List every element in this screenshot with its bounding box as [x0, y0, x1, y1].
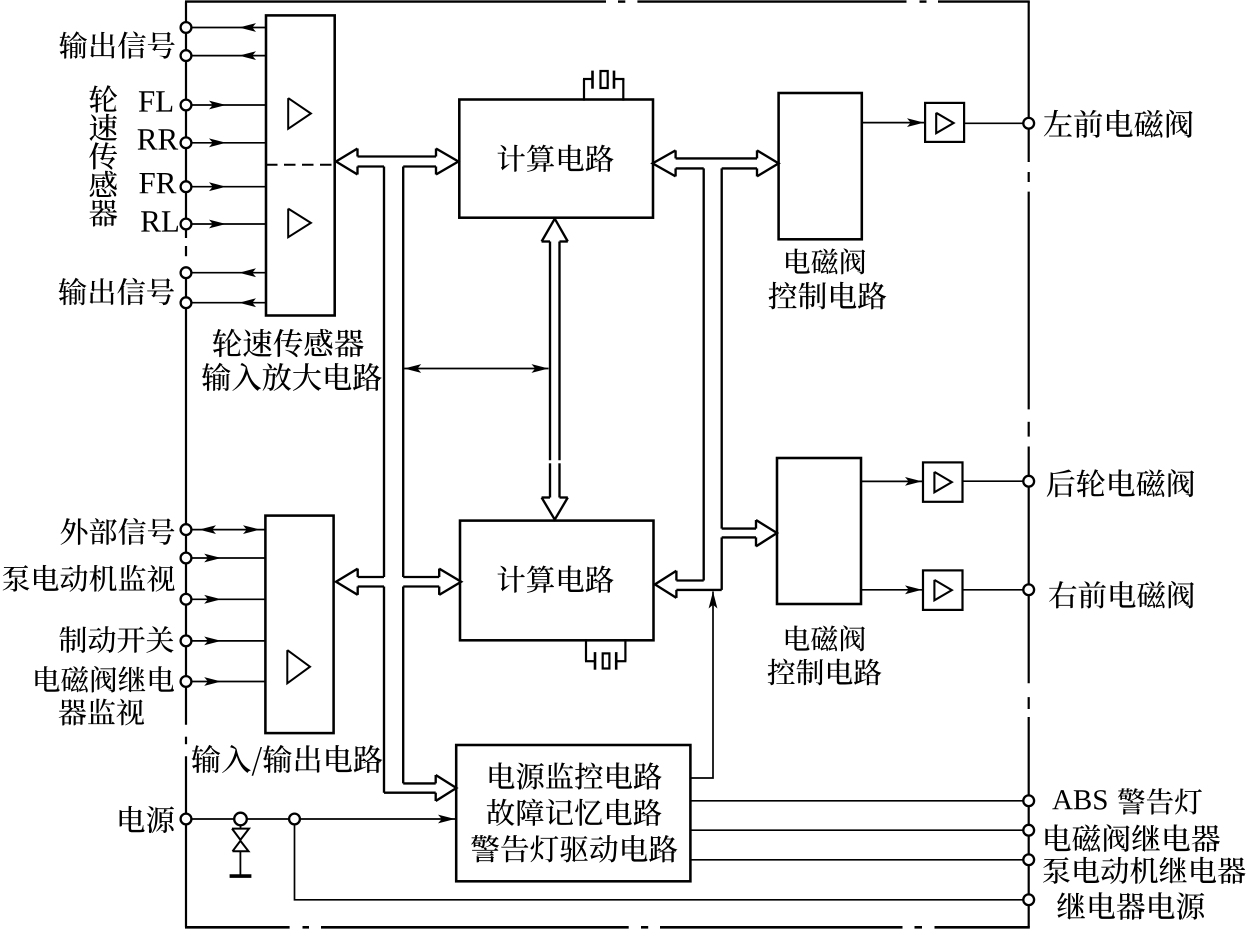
- node: ECU boundary, bottom edge: [185, 926, 1030, 929]
- label: RR: [138, 129, 158, 149]
- block: input/output circuit (输入/输出电路): [265, 516, 333, 734]
- block: computation circuit U1 (计算电路 upper): [459, 100, 653, 218]
- diode D1 (surge suppressor to ground): [230, 825, 252, 876]
- label: computation circuit U1: [498, 145, 525, 172]
- label: computation circuit U2: [498, 566, 525, 593]
- label: external signal: [61, 518, 88, 545]
- label: FL: [139, 91, 154, 111]
- label: brake switch: [59, 626, 86, 653]
- label: power: [120, 806, 145, 832]
- label: solenoid relay terminal: [1045, 824, 1070, 851]
- bus arrow: left bus into power monitor block: [384, 775, 456, 801]
- label: relay power terminal: [1057, 892, 1085, 919]
- junction node: relay power tap: [289, 814, 300, 825]
- label: front-right solenoid valve: [1049, 581, 1076, 608]
- label: FR: [139, 173, 154, 193]
- wire: battery power feed into monitor block: [186, 815, 455, 824]
- block: wheel-speed sensor input amplifier (轮速传感器输入放大电路): [266, 15, 335, 315]
- node: ECU boundary, left edge with terminal rail: [185, 2, 187, 928]
- wire: pump motor relay output: [690, 859, 1023, 861]
- block: solenoid control circuit U4 (电磁阀控制电路 lower): [777, 458, 861, 604]
- driver amp Q1 triangle: [936, 113, 953, 133]
- amplifier symbol A2: [288, 209, 311, 238]
- label: solenoid control U4: [768, 625, 882, 685]
- wire: U3 to driver Q1 and front-left solenoid terminal: [863, 118, 1023, 127]
- arrowheads on sensor leads: [209, 23, 256, 307]
- bus arrow: vertical between U1 and U2 (bidirectional): [542, 219, 568, 520]
- terminal circles, left rail: [181, 22, 192, 824]
- driver amp Q3 triangle: [934, 580, 951, 600]
- label: ABS warning lamp: [1052, 788, 1202, 814]
- driver amp Q1 box: [925, 103, 964, 142]
- bus arrow: right bus into U2 right edge: [655, 571, 722, 598]
- block: computation circuit U2 (计算电路 lower): [460, 521, 654, 641]
- wire: warning lamp output: [690, 800, 1023, 802]
- bus arrow: amplifier to U1 (bidirectional hollow arrow): [336, 149, 458, 175]
- wire: I/O circuit input leads: [186, 530, 265, 682]
- node: ECU boundary, right edge with terminal rail: [1028, 2, 1030, 928]
- terminal circles, right rail: [1023, 118, 1034, 905]
- driver amp Q2 triangle: [934, 472, 951, 492]
- label: input/output circuit: [191, 745, 220, 773]
- label: pump motor monitor: [3, 565, 30, 592]
- label: pump motor relay terminal: [1043, 857, 1070, 884]
- wire: U4 to driver Q2 and rear solenoid terminal: [861, 477, 1023, 486]
- wire: serial link between buses (thin double arrow): [404, 364, 548, 373]
- label: output signal (bottom): [58, 278, 86, 305]
- crystal oscillator X2 (on U2 bottom): [585, 639, 626, 670]
- bus arrow: right bus into solenoid control U4: [722, 520, 777, 546]
- amplifier symbol A1: [288, 98, 311, 129]
- label: rear solenoid valve: [1047, 469, 1075, 497]
- label: power monitor lines: [471, 762, 677, 862]
- wire: solenoid relay output: [690, 829, 1023, 831]
- bus: right vertical hollow bus: [704, 168, 722, 590]
- amplifier symbol A3: [287, 650, 310, 683]
- label: solenoid relay monitor line2: [59, 699, 87, 725]
- block: power monitor / fault memory / warning lamp driver: [456, 745, 690, 881]
- label: front-left solenoid valve: [1044, 110, 1072, 137]
- wire: U4 to driver Q3 and front-right solenoid terminal: [861, 585, 1023, 594]
- junction node: diode tap: [234, 813, 247, 826]
- crystal oscillator X1 (on U1 top): [583, 71, 624, 101]
- label: solenoid control U3: [769, 248, 887, 309]
- node: ECU enclosure boundary (chain line), top edge: [185, 0, 1030, 2]
- driver amp Q3 box: [923, 570, 963, 610]
- label: output signal (top): [59, 31, 87, 58]
- label: wheel speed sensor (vertical): [89, 85, 117, 112]
- bus: left vertical hollow bus to power monitor: [384, 167, 403, 793]
- block: solenoid control circuit U3 (电磁阀控制电路 upper): [779, 93, 862, 239]
- wire: relay power line to terminal: [295, 824, 1024, 900]
- bus arrow: I/O circuit to U2 (bidirectional, crossing left bus): [336, 569, 461, 595]
- wire: monitor feedback to U2 (thin arrow up): [690, 592, 717, 779]
- label: solenoid relay monitor line1: [35, 666, 59, 692]
- bus arrow: U1 to solenoid control U3 (bidirectional): [653, 150, 779, 176]
- arrowheads on I/O leads: [199, 525, 260, 686]
- label: wheel speed sensor input amplifier: [202, 329, 382, 391]
- wire: eight wheel-speed sensor channel leads: [186, 28, 266, 303]
- driver amp Q2 box: [923, 462, 963, 501]
- label: RL: [141, 211, 161, 231]
